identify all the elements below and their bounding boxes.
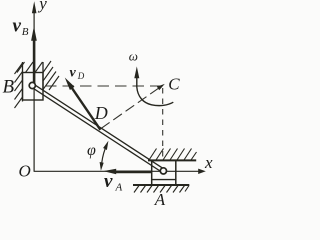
omega turn arrow (arc + up arrowhead) [137, 78, 174, 106]
channel top line at A [148, 159, 196, 161]
svg-text:D: D [77, 71, 85, 81]
svg-text:A: A [154, 190, 166, 205]
svg-text:x: x [204, 153, 213, 172]
svg-text:ω: ω [129, 48, 138, 63]
svg-text:D: D [94, 103, 108, 123]
arrowhead of DC line at C [157, 84, 165, 90]
svg-text:v: v [70, 65, 77, 80]
svg-text:B: B [3, 76, 15, 97]
wall hatching right of slider B [35, 61, 59, 90]
slider block A right edge [175, 160, 177, 185]
dashed line D to C [101, 87, 160, 128]
slider block A left edge [151, 160, 153, 185]
svg-text:A: A [115, 181, 123, 193]
phi angle arc with two arrowheads [102, 145, 107, 163]
dashed line B to C [45, 85, 160, 87]
hatched block above slider A [149, 149, 197, 161]
channel bottom line at A [133, 184, 189, 186]
wall hatching left of slider B [15, 62, 34, 108]
dashed line C to A [162, 88, 164, 160]
hatched block below slider A [134, 186, 189, 193]
svg-text:φ: φ [87, 142, 96, 159]
rod AB (double line) [33, 84, 164, 169]
velocity vector v_A [115, 170, 152, 173]
velocity vector v_D [72, 87, 101, 129]
slider block A bottom edge [152, 179, 176, 181]
slider block B [23, 73, 44, 101]
wall line left at B [22, 62, 24, 102]
svg-text:y: y [37, 0, 47, 13]
pin at B [29, 82, 35, 88]
svg-text:O: O [19, 162, 31, 181]
svg-text:v: v [104, 171, 113, 192]
velocity vector v_B [33, 40, 36, 86]
svg-text:C: C [168, 74, 180, 93]
pin at A [160, 168, 166, 174]
wall line right at B [42, 62, 44, 90]
svg-text:B: B [22, 26, 29, 38]
y-axis [33, 10, 35, 171]
x-axis [34, 170, 200, 172]
svg-text:v: v [13, 16, 22, 37]
